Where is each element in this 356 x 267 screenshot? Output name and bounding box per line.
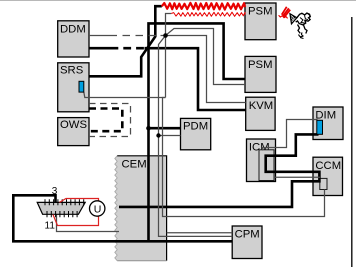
module SRS [58,63,89,112]
svg-text:CPM: CPM [235,229,260,241]
junction dot DDM thin meeting point [163,33,168,38]
wire voltmeter red loop [53,199,99,226]
module KVM [246,97,275,130]
svg-text:DDM: DDM [60,24,86,36]
wire DDM to KVM (thick, dashed mid-section) [89,47,111,50]
top frame edge [0,0,356,2]
wire junction to PDM (thick) [149,127,181,130]
wire SRS blue comp to bus (gray) [84,92,166,98]
wire DDM thin to junction (gray, dashed mid) [89,35,110,37]
svg-text:CCM: CCM [315,160,341,172]
module ICM [247,139,276,182]
svg-text:PSM: PSM [248,6,272,18]
module OWS [58,118,89,146]
junction dot gray vertical at PDM branch [156,133,160,137]
faulty wire red zigzag thin to PSM [171,12,245,16]
svg-text:U: U [94,203,102,215]
svg-text:11: 11 [45,221,56,232]
component SRS blue connector [79,81,84,92]
connector terminal (trapezoid with pins) [37,199,85,217]
svg-text:PDM: PDM [183,121,208,133]
wire PSM2 to CEM trunk (thick) [149,23,246,241]
wire SRS to OWS (thin gray dashed outer loop) [89,104,131,137]
module DIM [313,107,343,140]
module PSM1 [245,3,276,40]
fault icon black scribble [290,13,310,38]
svg-text:CEM: CEM [122,159,147,171]
wire DIM to ICM to CCM to CEM (thick weave) [119,134,319,207]
wire junction down to SRS line (gray) [165,36,167,98]
right frame edge [351,17,353,267]
svg-text:3: 3 [52,186,58,197]
svg-text:KVM: KVM [249,100,273,112]
wire junction diagonal down to PDM/CPM vertical (gray) [159,36,233,237]
voltmeter U [90,201,105,216]
wire connector to CEM (gray) [57,214,120,231]
svg-text:PSM: PSM [248,59,272,71]
svg-text:SRS: SRS [60,65,84,77]
module CCM [313,157,343,195]
wire CEM to CPM and big loop bottom (thick) [13,195,232,241]
svg-text:OWS: OWS [60,119,87,131]
wire junction to PSM2 (gray via diagonal) [166,29,246,85]
faulty wire red zigzag thick to PSM [162,3,245,10]
wire branch to PDM (gray) [159,135,181,137]
connector ICM inner [259,150,274,181]
junction dot on trunk at PDM branch [146,126,151,131]
wire SRS to PSM (thick, up the trunk) [89,6,162,76]
module CEM [115,156,167,261]
wire junction up to thin red zigzag [166,14,172,36]
module CPM [232,226,262,259]
module PSM2 [245,56,276,92]
wire CEM to CPM (gray upper) [167,232,233,234]
connector CCM inner [320,178,327,189]
module DDM [58,21,89,57]
component DIM blue connector [317,120,323,134]
wire SRS to OWS (thick dashed loop) [89,109,122,132]
wire junction to KVM (gray) [166,36,246,103]
module PDM [181,118,211,149]
wire down to CCM via CEM area (gray long) [163,98,325,217]
wire DIM to ICM (gray) [263,120,318,151]
wire ICM to CCM (gray) [274,176,320,178]
fault icon red arrows [279,7,291,19]
